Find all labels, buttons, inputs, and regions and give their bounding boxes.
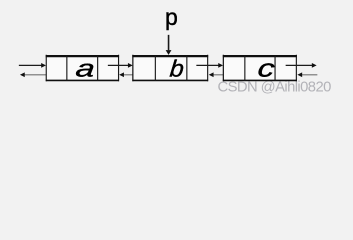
wire: next pointer of node c going right (black line) (286, 64, 313, 66)
wire: next pointer of node a to node b (black line) (108, 64, 129, 66)
arrowhead left, into node c from right (297, 72, 302, 77)
arrowhead left, prev of node a (20, 72, 25, 77)
wire: prev pointer of node a going left (gray line) (24, 74, 57, 76)
arrowhead right, next of node c (312, 63, 317, 68)
wire: next pointer from unseen left node into node a (black line) (19, 64, 42, 66)
node a box (46, 56, 118, 81)
wire: prev pointer from unseen right node back to node c (gray line) (302, 74, 318, 76)
wire: next pointer of node b to node c (black line) (196, 64, 218, 66)
svg-text:CSDN @Aihli0820: CSDN @Aihli0820 (218, 80, 332, 96)
svg-text:p: p (165, 4, 178, 30)
node b divider 2 (186, 56, 188, 81)
node c box (223, 56, 296, 81)
wire: prev pointer of node b back to node a (gray line) (124, 74, 146, 76)
node b box (133, 56, 208, 81)
node c divider 1 (244, 56, 246, 81)
node b divider 1 (154, 56, 156, 81)
node c divider 2 (274, 56, 276, 81)
wire: p arrow stem (168, 35, 170, 50)
node a divider 1 (66, 56, 68, 81)
arrowhead right, into node c (218, 63, 223, 68)
arrowhead right, into node b (128, 63, 133, 68)
wire: prev pointer of node c back to node b (gray line) (213, 74, 234, 76)
arrowhead left, prev of node c (209, 72, 214, 77)
arrowhead right, into node a (41, 63, 46, 68)
svg-text:b: b (169, 56, 185, 82)
svg-text:a: a (74, 56, 96, 82)
arrowhead down, p into node b (166, 50, 172, 55)
arrowhead left, prev of node b (119, 72, 124, 77)
node a divider 2 (97, 56, 99, 81)
